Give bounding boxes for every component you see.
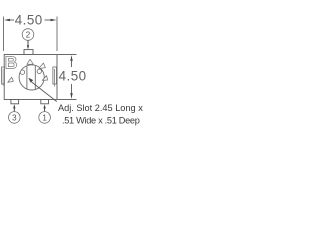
adjustment slot leader arrowhead: [28, 78, 33, 83]
svg-text:4.50: 4.50: [59, 68, 87, 83]
dimension 4.50 horizontal: left extension line: [3, 17, 5, 52]
right side tab (terminal) outer: [53, 67, 57, 84]
dimension 4.50 vertical: bottom arrow: [70, 93, 72, 99]
svg-text:4.50: 4.50: [15, 13, 43, 28]
dimension 4.50 vertical: bottom extension line: [58, 99, 77, 101]
right side tab inner line: [54, 69, 56, 87]
rotor hole left: [20, 70, 24, 74]
svg-text:2: 2: [26, 30, 31, 39]
pin 3 (bottom left pin): [11, 100, 19, 104]
dimension 4.50 vertical: top shaft: [71, 60, 73, 67]
dimension 4.50 vertical: top extension line: [58, 54, 77, 56]
dimension 4.50 horizontal: right extension line: [56, 17, 58, 52]
svg-text:B: B: [5, 53, 18, 73]
adjustment slot leader line: [31, 82, 57, 102]
rotor circle: [19, 65, 44, 90]
pin 2 (top pin): [24, 50, 33, 55]
rotor slot right line: [34, 66, 36, 90]
indicator triangle top-right: [39, 63, 46, 69]
terminal 1 balloon circle: [39, 112, 51, 124]
terminal 2 leader arrow: [27, 40, 29, 46]
body outline (4.50 x 4.50 square, top view): [4, 55, 57, 100]
dimension 4.50 horizontal: left shaft: [9, 19, 14, 21]
terminal 3 leader arrow: [13, 104, 15, 108]
indicator triangle left: [8, 77, 14, 82]
left side tab (terminal) outer: [2, 67, 5, 84]
dimension 4.50 horizontal: right arrow: [51, 19, 57, 21]
svg-text:3: 3: [12, 113, 17, 122]
dimension 4.50 vertical: bottom shaft: [71, 84, 73, 93]
terminal 3 balloon circle: [9, 112, 21, 124]
indicator triangle right: [42, 76, 47, 81]
dimension 4.50 horizontal: right shaft: [45, 19, 52, 21]
dimension 4.50 horizontal: left arrow: [4, 19, 10, 21]
terminal 1 leader arrow: [43, 104, 45, 108]
rotor slot left line: [26, 66, 28, 89]
svg-text:1: 1: [42, 113, 47, 122]
svg-text:.51 Wide x .51 Deep: .51 Wide x .51 Deep: [62, 115, 140, 125]
indicator triangle top: [27, 59, 34, 64]
dimension 4.50 vertical: top arrow: [70, 55, 72, 61]
left side tab inner line: [2, 69, 4, 86]
pin 1 (bottom right pin): [41, 100, 49, 104]
rotor hole right: [37, 69, 41, 73]
terminal 2 balloon circle: [22, 29, 34, 41]
svg-text:Adj. Slot 2.45 Long x: Adj. Slot 2.45 Long x: [58, 103, 143, 113]
